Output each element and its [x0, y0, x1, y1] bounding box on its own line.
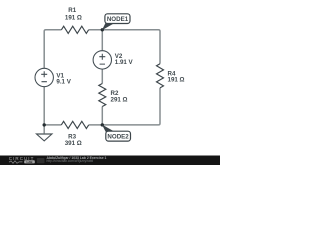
resistor R4	[157, 64, 164, 88]
resistor R1	[61, 26, 88, 33]
node NODE2 label	[102, 125, 131, 142]
svg-text:9.1 V: 9.1 V	[56, 78, 71, 85]
svg-text:NODE2: NODE2	[107, 133, 129, 140]
junction node1	[101, 28, 104, 31]
junction ground	[43, 123, 46, 126]
wire mid: V2 to R2	[101, 69, 103, 83]
wire ground stub	[43, 125, 45, 133]
footer thumbnail box	[37, 158, 45, 163]
wire left-bottom: V1 to ground junction	[43, 87, 45, 125]
wire mid-top: node1 junction to V2	[101, 30, 103, 51]
svg-text:191 Ω: 191 Ω	[65, 15, 82, 22]
svg-text:http://circuitlab.com/c/9jkzxy: http://circuitlab.com/c/9jkzxy/rabil	[47, 159, 94, 163]
svg-text:291 Ω: 291 Ω	[111, 96, 128, 103]
svg-text:391 Ω: 391 Ω	[65, 140, 82, 147]
svg-text:191 Ω: 191 Ω	[168, 77, 185, 84]
footer logo LAB badge	[24, 160, 35, 163]
wire mid-bottom: R2 to node2 junction	[101, 107, 103, 125]
wire top-right: R1 to right rail down to R4	[89, 30, 160, 64]
voltage source V2	[93, 51, 111, 69]
svg-text:1.91 V: 1.91 V	[115, 59, 134, 66]
node NODE1 label	[102, 14, 130, 30]
resistor R3	[61, 121, 88, 128]
footer bar	[0, 156, 220, 166]
svg-text:NODE1: NODE1	[107, 16, 129, 23]
svg-text:R1: R1	[68, 7, 76, 14]
voltage source V1	[35, 68, 53, 86]
wire bottom-right: R4 down + bottom rail to R3	[89, 88, 160, 125]
wire top-left: left rail up + top rail to R1	[44, 30, 61, 69]
footer logo waveform	[9, 161, 23, 164]
svg-text:LAB: LAB	[27, 160, 33, 164]
ground	[37, 134, 52, 141]
junction node2	[101, 123, 104, 126]
resistor R2	[99, 84, 106, 107]
wire bottom-left: R3 to ground junction	[44, 124, 61, 126]
